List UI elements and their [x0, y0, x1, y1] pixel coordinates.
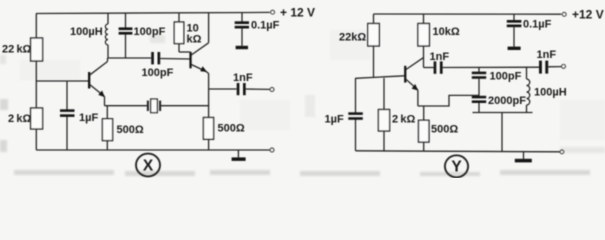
svg-text:1nF: 1nF: [233, 72, 253, 84]
svg-text:X: X: [143, 157, 154, 174]
wire: Y bottom rail: [356, 151, 560, 152]
node: X bottom terminal: [270, 148, 274, 152]
svg-text:+12 V: +12 V: [572, 8, 604, 22]
faint page bleed-through marks: [0, 35, 605, 176]
node: X output terminal: [270, 88, 274, 92]
inductor 100uH (X): [107, 14, 109, 25]
resistor 500 (Y): [423, 106, 425, 120]
ground: 0.1uF (Y): [508, 47, 521, 50]
capacitor 100pF shunt (X): [125, 14, 127, 28]
svg-text:500Ω: 500Ω: [218, 123, 245, 135]
capacitor 1nF output (Y): [539, 61, 548, 74]
capacitor 100pF (Y): [478, 67, 480, 72]
svg-text:0.1µF: 0.1µF: [523, 19, 552, 31]
wire: Y top supply rail: [374, 13, 562, 15]
capacitor 100pF coupling (X): [151, 52, 160, 64]
svg-text:2 kΩ: 2 kΩ: [392, 114, 415, 126]
svg-text:2000pF: 2000pF: [488, 95, 526, 107]
capacitor 1nF coupling (Y): [424, 67, 434, 69]
wire: Q3 base line: [356, 76, 405, 79]
svg-text:10kΩ: 10kΩ: [433, 26, 460, 38]
svg-text:22 kΩ: 22 kΩ: [2, 44, 32, 56]
wire: 1nF output line (X): [209, 88, 237, 90]
wire: crystal left lead: [105, 105, 148, 107]
svg-text:2 kΩ: 2 kΩ: [8, 113, 31, 125]
svg-text:22kΩ: 22kΩ: [339, 32, 366, 44]
crystal XTAL: [148, 99, 160, 113]
ground: 0.1uF (X): [236, 46, 248, 49]
svg-text:500Ω: 500Ω: [431, 124, 458, 136]
capacitor 0.1uF (Y): [513, 14, 515, 20]
wire: X left vertical (rail to bottom): [35, 14, 37, 39]
svg-text:1µF: 1µF: [325, 114, 344, 126]
resistor R 22k: [31, 38, 43, 61]
capacitor 1nF output (X): [237, 83, 246, 95]
wire: Q1 base line: [36, 80, 88, 82]
wire: emitter feedback path: [418, 95, 479, 106]
svg-text:100µH: 100µH: [534, 87, 567, 99]
wire: between 100pF and 2000pF: [478, 79, 480, 96]
svg-text:100pF: 100pF: [142, 67, 174, 79]
svg-text:Y: Y: [451, 159, 462, 176]
svg-text:100µH: 100µH: [70, 26, 103, 38]
wire: X bottom rail: [36, 149, 269, 151]
label Y badge: [445, 155, 468, 177]
transistor Q2: [189, 13, 208, 118]
svg-text:100pF: 100pF: [490, 71, 522, 83]
resistor 10k (X): [178, 14, 180, 23]
resistor 500 right (X): [203, 118, 213, 140]
wire: crystal right lead: [160, 105, 209, 107]
ground: Y bottom: [523, 152, 525, 159]
node: Y +12V terminal: [562, 12, 566, 16]
wire: tank to ground rail: [501, 113, 503, 152]
svg-text:100pF: 100pF: [134, 26, 166, 38]
svg-text:1nF: 1nF: [537, 49, 557, 61]
node: Y bottom terminal: [560, 150, 564, 154]
svg-text:kΩ: kΩ: [187, 34, 202, 46]
wire: tank node to coupling cap: [108, 57, 151, 59]
wire: X top supply rail: [36, 12, 270, 13]
resistor 2k (Y): [383, 78, 385, 110]
svg-text:1nF: 1nF: [430, 51, 450, 63]
resistor 10k (Y): [423, 14, 425, 24]
node: Y output terminal: [562, 65, 566, 69]
ground: X bottom: [237, 150, 239, 157]
svg-text:0.1µF: 0.1µF: [251, 20, 280, 32]
resistor 500 left (X): [106, 106, 108, 119]
transistor Q1: [88, 58, 108, 106]
transistor Q3: [404, 58, 423, 106]
svg-text:+ 12 V: + 12 V: [280, 6, 315, 20]
capacitor 1uF (X): [66, 81, 68, 110]
label X badge: [136, 154, 160, 177]
wire: tank bottom: [473, 112, 533, 114]
resistor R 2k: [31, 108, 43, 129]
svg-text:500Ω: 500Ω: [117, 124, 144, 136]
node: X +12V terminal: [271, 10, 275, 14]
svg-text:1µF: 1µF: [79, 112, 98, 124]
inductor 100uH (Y): [526, 67, 528, 79]
capacitor 1uF (Y): [355, 78, 357, 113]
capacitor 0.1uF (X): [241, 13, 243, 22]
capacitor 2000pF (Y): [472, 96, 486, 103]
wire: Y collector/output line: [443, 66, 539, 68]
resistor 22k (Y): [373, 14, 375, 24]
